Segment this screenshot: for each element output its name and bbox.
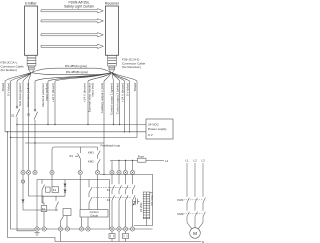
light beam arrow 3: [41, 33, 103, 37]
left wrap wire B: [11, 138, 38, 230]
svg-text:24 VDC: 24 VDC: [148, 123, 160, 127]
svg-text:+24 V (brown): +24 V (brown): [121, 83, 125, 102]
svg-text:K1: K1: [53, 188, 57, 192]
emitter fan wires: [5, 73, 31, 82]
motor M: [190, 228, 201, 239]
rail R3: [11, 137, 138, 139]
svg-text:24 VDC: 24 VDC: [139, 203, 143, 212]
svg-text:RS-485(B) (gray): RS-485(B) (gray): [66, 70, 88, 74]
wire from A2 terminal: [29, 175, 44, 203]
wire: control output 1: [113, 81, 115, 125]
svg-text:L1: L1: [165, 159, 169, 163]
safety output contact 23-24: [119, 175, 122, 227]
svg-text:0 V (blue): 0 V (blue): [7, 83, 11, 96]
aux circuit to PLC load: [100, 174, 153, 225]
switch S3: [75, 147, 81, 170]
svg-text:RS-485(A) (gray): RS-485(A) (gray): [65, 64, 87, 68]
svg-text:Control output 1 (green): Control output 1 (green): [110, 83, 114, 115]
24VDC power supply box: [146, 119, 173, 139]
svg-text:Auxiliary output 1 (red): Auxiliary output 1 (red): [100, 83, 104, 113]
svg-text:K1: K1: [107, 188, 111, 192]
svg-text:K2: K2: [107, 198, 111, 202]
wire: emitter +24V: [22, 81, 24, 170]
receiver fan wires: [35, 73, 137, 82]
svg-text:0 V (blue): 0 V (blue): [126, 83, 130, 96]
svg-text:+24 V (brown): +24 V (brown): [83, 83, 87, 102]
svg-text:S3: S3: [69, 154, 73, 158]
fuse: [138, 158, 147, 162]
svg-text:Circuit: Circuit: [90, 213, 98, 217]
svg-text:Feedback loop: Feedback loop: [101, 143, 121, 147]
suppressor diodes: [64, 180, 66, 197]
K1 monitor contact wire: [89, 180, 92, 198]
wire T32 down to control circuit: [79, 175, 81, 210]
safety output contact 33-34: [126, 175, 129, 227]
RS-485(A) link wire: [32, 68, 111, 72]
relay K1 coil box: [52, 187, 59, 193]
svg-text:Power supply: Power supply: [148, 127, 167, 131]
wire: emitter shield: [4, 81, 6, 132]
rail R1 +24V: [17, 124, 146, 126]
switch S2: [34, 109, 36, 111]
bottom row line to PLC return: [110, 228, 153, 230]
phase wire 2: [195, 163, 197, 228]
safety output contact 13-14 (K1+K2 in series): [112, 175, 115, 227]
svg-text:(for Emitter): (for Emitter): [1, 68, 17, 72]
indicator circle under A1: [21, 180, 24, 183]
switch S1: [16, 106, 18, 108]
svg-text:L2: L2: [193, 159, 197, 163]
svg-text:S1: S1: [11, 114, 15, 118]
svg-text:Test input (yellow): Test input (yellow): [26, 83, 30, 107]
fuse feed bus: [110, 160, 164, 162]
svg-text:PLC, etc.: PLC, etc.: [150, 196, 154, 207]
wire: emitter 0V second: [28, 81, 30, 170]
receiver cable taper: [109, 70, 114, 73]
PLC load (hatched): [143, 192, 150, 219]
wire: receiver +24V a: [54, 81, 56, 125]
svg-text:Fuse: Fuse: [138, 154, 145, 158]
svg-text:K2: K2: [42, 207, 46, 211]
KM1 contactor coil: [111, 231, 113, 241]
light beam arrow 2: [41, 19, 103, 23]
mechanical link dashed K2: [91, 196, 131, 198]
wire: interlock selection input: [47, 81, 49, 125]
rail R4: [25, 142, 104, 144]
KM1 NC contact in feedback: [98, 147, 101, 159]
svg-text:KM2: KM2: [88, 159, 94, 163]
wire: test input col: [16, 81, 18, 125]
top terminal row (circled X terminals): [21, 170, 135, 174]
mechanical link dashed K1: [91, 186, 131, 188]
feedback loop wire from terminal T31: [52, 147, 81, 170]
aux relay box: [46, 187, 51, 192]
return wires to N: [61, 231, 120, 241]
wire: auxiliary output 1: [103, 81, 105, 174]
forced-guide cap symbol: [133, 198, 140, 206]
svg-text:input (yellow): input (yellow): [44, 83, 48, 101]
svg-text:Shield: Shield: [1, 83, 5, 92]
RS-485(B) link wire: [32, 73, 111, 75]
svg-text:L3: L3: [201, 159, 205, 163]
wire T33 down to control circuit: [97, 175, 99, 210]
PE ground symbol: [34, 231, 39, 235]
svg-text:Emitter: Emitter: [25, 2, 37, 6]
relay contact small: [56, 196, 59, 211]
svg-text:+24 V (brown): +24 V (brown): [51, 83, 55, 102]
wires control circuit to bottom terminals: [82, 217, 89, 227]
svg-text:KM1: KM1: [178, 198, 184, 202]
inner controller box: [37, 180, 110, 230]
svg-text:Test input (green): Test input (green): [18, 83, 22, 106]
diode D1: [22, 200, 24, 203]
receiver connector stack: [108, 55, 117, 70]
svg-text:input (red): input (red): [91, 83, 95, 97]
wire: receiver shield: [136, 81, 138, 138]
wire: control output 2: [119, 81, 121, 125]
K2 monitor contact wire: [89, 198, 92, 209]
KM2 contactor coil: [125, 231, 127, 241]
svg-text:L1: L1: [185, 159, 189, 163]
rail R2 0V: [5, 131, 146, 133]
relay K3 box: [63, 209, 71, 216]
svg-text:Shield: Shield: [133, 83, 137, 92]
phase wire 3: [198, 163, 205, 229]
wire: external relay monitor: [87, 81, 89, 125]
light beam arrow 1: [41, 9, 103, 13]
emitter connector stack: [27, 55, 36, 70]
receiver body: [106, 6, 119, 55]
input contact a1: [42, 180, 65, 206]
emitter body: [25, 6, 38, 55]
junction dots on rails: [7, 124, 130, 144]
KM2 NC contact in feedback: [98, 159, 101, 170]
svg-text:M: M: [193, 231, 197, 236]
bus drops to output terminals: [112, 161, 133, 171]
svg-text:Control output 2 (white): Control output 2 (white): [116, 83, 120, 114]
svg-text:KM2: KM2: [178, 212, 184, 216]
aux output contact 41-42: [133, 175, 136, 227]
light beam arrow 4: [41, 44, 103, 48]
phase wire 1: [187, 163, 192, 229]
svg-text:Safety Light Curtain: Safety Light Curtain: [64, 5, 94, 9]
svg-text:S2: S2: [27, 113, 31, 117]
left wrap wire A: [8, 132, 56, 242]
wire T31 down to K1: [51, 175, 53, 187]
wire: receiver +24V b: [124, 81, 126, 132]
wire: emitter 0V blue: [10, 81, 12, 138]
svg-text:Receiver: Receiver: [105, 2, 120, 6]
svg-text:KM1: KM1: [88, 151, 94, 155]
left wrap wire C: [17, 125, 35, 231]
wire from A1 terminal with diode: [23, 175, 58, 210]
svg-text:(for Receiver): (for Receiver): [122, 65, 141, 69]
N rail: [55, 241, 201, 243]
bottom terminal row: [43, 212, 45, 227]
feedback bracket top: [81, 146, 98, 148]
relay K2 coil box: [41, 206, 47, 212]
emitter cable taper: [29, 70, 34, 73]
wire to terminal 14 area: [61, 216, 68, 227]
wire: receiver 0V c: [129, 81, 131, 132]
control circuit box: [80, 210, 108, 218]
svg-text:Control: Control: [90, 210, 99, 214]
wire: interlock/S2 col: [34, 81, 36, 170]
